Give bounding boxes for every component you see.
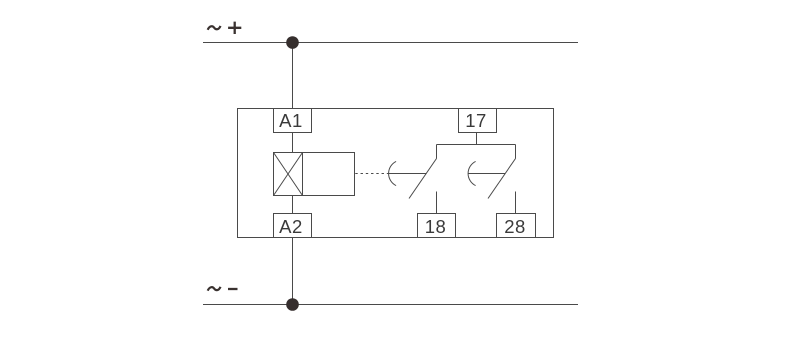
svg-text:28: 28 bbox=[504, 216, 526, 237]
svg-text:A1: A1 bbox=[279, 110, 303, 131]
svg-text:18: 18 bbox=[425, 216, 447, 237]
svg-text:A2: A2 bbox=[279, 216, 303, 237]
svg-text:17: 17 bbox=[465, 110, 487, 131]
